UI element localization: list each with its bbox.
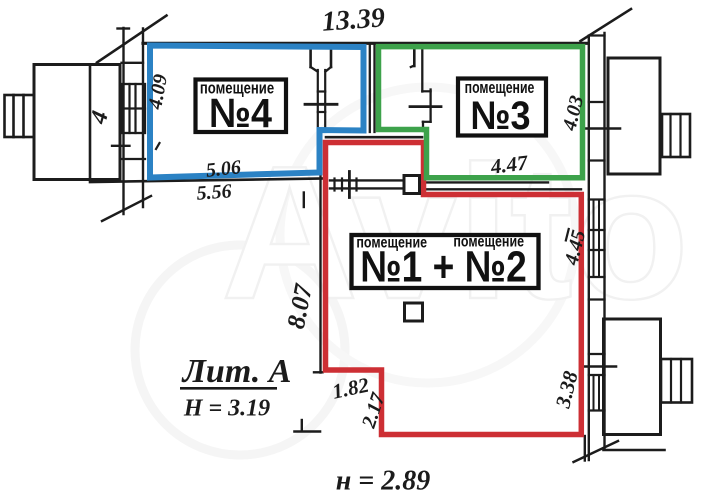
red room 1+2 outline: [326, 143, 582, 435]
right big rect upper: [608, 58, 660, 174]
door rect on mid wall (over lines): [404, 176, 420, 194]
blue-room partition mark: [309, 48, 312, 67]
svg-text:№3: №3: [470, 94, 530, 138]
room 3 label: [458, 79, 546, 139]
section tick mark lower: [301, 420, 303, 431]
svg-text:Лит. А: Лит. А: [181, 353, 292, 390]
left building outer rect: [34, 65, 120, 180]
wall line A: [122, 28, 124, 214]
right diagonal tick top: [581, 9, 632, 41]
small dash near 4.09: [156, 143, 160, 149]
right wall band verticals: [588, 37, 590, 460]
long wall line under room4: [90, 179, 324, 183]
mid wall double lines left part: [330, 179, 404, 181]
svg-text:н = 2.89: н = 2.89: [336, 466, 431, 494]
band dividers: [589, 34, 605, 36]
bottom right step line: [604, 449, 665, 452]
partition between rooms 4 and 3: [369, 43, 371, 132]
caps and ticks left column: [122, 62, 144, 64]
wall line B: [142, 29, 144, 208]
left protrusion striped: [5, 95, 35, 137]
svg-text:4.47: 4.47: [488, 150, 530, 179]
rooms 1+2 label: [352, 233, 539, 291]
black vertical left of red left edge: [319, 176, 321, 373]
green-room partition mark: [413, 49, 416, 67]
room 4 label: [196, 79, 287, 136]
left building divider: [89, 65, 92, 180]
ticks crossing band: [584, 127, 620, 130]
svg-text:5.06: 5.06: [205, 156, 242, 182]
watermark arcs: [135, 87, 576, 455]
mid wall double lines right part: [420, 181, 549, 183]
svg-text:13.39: 13.39: [321, 2, 386, 37]
svg-text:5.56: 5.56: [196, 180, 232, 204]
diagonal tick top-left: [97, 16, 167, 63]
right big rect lower: [604, 319, 661, 435]
svg-text:№4: №4: [209, 91, 272, 137]
line above red top edge: [326, 136, 422, 139]
blue room 4 outline: [150, 46, 364, 178]
striped block left column: [122, 84, 146, 133]
top outer wall: [143, 42, 588, 45]
bottom right vertical below red corner: [584, 436, 586, 461]
svg-text:Н = 3.19: Н = 3.19: [183, 396, 270, 422]
section tick mark upper: [303, 193, 305, 208]
right protrusion lower striped: [661, 359, 692, 403]
green room 3 outline: [379, 47, 583, 178]
bottom right diagonal: [574, 441, 619, 462]
svg-text:№1 + №2: №1 + №2: [360, 242, 527, 292]
right protrusion upper striped: [662, 114, 690, 157]
diagonal tick bottom of left wall: [102, 196, 151, 221]
small square column in red room: [405, 303, 423, 321]
